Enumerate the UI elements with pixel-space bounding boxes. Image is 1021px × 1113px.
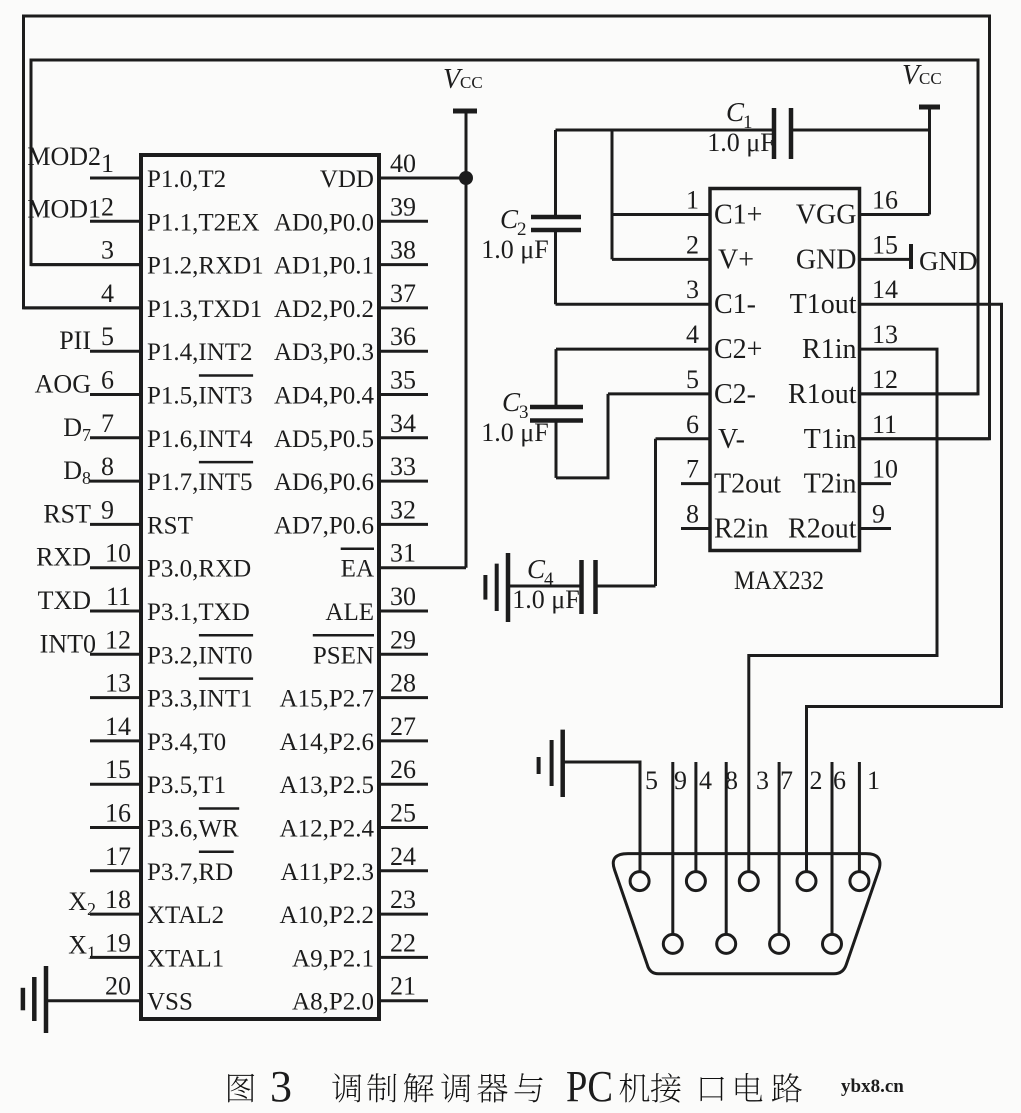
wire C4 right lead [596, 585, 656, 588]
wire C4 left lead to ground [508, 585, 582, 588]
svg-text:AD0,P0.0: AD0,P0.0 [274, 209, 374, 236]
svg-text:14: 14 [872, 275, 898, 304]
svg-text:3: 3 [686, 275, 699, 304]
DB9 hole pin 8 [717, 934, 736, 953]
U1 pin 2 wire (P1.1,T2EX) [90, 220, 141, 223]
svg-text:7: 7 [686, 455, 699, 484]
U1 pin 18 wire (XTAL2) [90, 913, 141, 916]
svg-text:2: 2 [686, 230, 699, 259]
svg-text:GND: GND [796, 244, 857, 275]
svg-text:2: 2 [101, 192, 114, 221]
svg-text:C1+: C1+ [714, 200, 762, 231]
svg-text:12: 12 [105, 625, 131, 654]
svg-text:12: 12 [872, 365, 898, 394]
DB9 hole pin 1 [850, 872, 869, 891]
svg-text:TXD: TXD [38, 586, 91, 615]
wire C3 to C2- pin5 [556, 394, 608, 478]
U1 pin 40 wire (VDD) [379, 177, 466, 180]
svg-text:P1.2,RXD1: P1.2,RXD1 [147, 253, 264, 280]
svg-text:5: 5 [101, 322, 114, 351]
overline INT5 [199, 461, 253, 464]
svg-text:P3.2,INT0: P3.2,INT0 [147, 642, 253, 669]
ground at DB9 pin 5 [537, 757, 541, 774]
svg-text:33: 33 [390, 452, 416, 481]
DB9 hole pin 4 [686, 872, 705, 891]
U2 pin 14 wire (T1out) to DB9 pin 2 [807, 304, 1002, 871]
svg-text:27: 27 [390, 712, 416, 741]
overline INT0 [199, 634, 253, 637]
svg-text:31: 31 [390, 539, 416, 568]
overline INT1 [199, 677, 253, 680]
U1 pin 37 wire (AD2,P0.2) [379, 306, 428, 309]
svg-text:A15,P2.7: A15,P2.7 [280, 686, 374, 713]
U1 pin 23 wire (A10,P2.2) [379, 913, 428, 916]
wire Vcc down to VDD and EA [465, 111, 468, 568]
svg-text:EA: EA [341, 556, 374, 583]
svg-text:40: 40 [390, 149, 416, 178]
svg-text:1.0 μF: 1.0 μF [481, 235, 548, 264]
svg-text:14: 14 [105, 712, 131, 741]
svg-text:C2+: C2+ [714, 334, 762, 365]
U1 pin 33 wire (AD6,P0.6) [379, 480, 428, 483]
U2 pin 4 wire (C2+) [556, 348, 710, 351]
U1 pin 10 wire (P3.0,RXD) [90, 566, 141, 569]
svg-text:MOD1: MOD1 [27, 194, 101, 223]
svg-text:A9,P2.1: A9,P2.1 [292, 945, 374, 972]
svg-text:1.0 μF: 1.0 μF [512, 585, 579, 614]
U1 pin 28 wire (A15,P2.7) [379, 696, 428, 699]
caption figure 3 text [228, 1073, 802, 1103]
svg-text:P1.7,INT5: P1.7,INT5 [147, 469, 253, 496]
svg-text:P3.0,RXD: P3.0,RXD [147, 556, 251, 583]
svg-text:T2out: T2out [714, 469, 781, 500]
svg-text:16: 16 [105, 799, 131, 828]
svg-text:1: 1 [867, 766, 880, 795]
svg-text:PC: PC [566, 1062, 613, 1111]
svg-text:AD6,P0.6: AD6,P0.6 [274, 469, 374, 496]
svg-text:A14,P2.6: A14,P2.6 [280, 729, 374, 756]
microcontroller U1 (80C32) body [141, 155, 379, 1019]
U2 pin 3 wire (C1-) [556, 303, 711, 306]
svg-text:P3.3,INT1: P3.3,INT1 [147, 686, 253, 713]
svg-text:A13,P2.5: A13,P2.5 [280, 772, 374, 799]
svg-text:35: 35 [390, 366, 416, 395]
svg-text:22: 22 [390, 928, 416, 957]
wire pin1/pin2 vertical to C1 node [611, 130, 614, 259]
U2 pin 5 wire (C2-) [608, 392, 710, 395]
wire C1 right segment to Vcc [791, 129, 930, 132]
U1 pin 27 wire (A14,P2.6) [379, 739, 428, 742]
overline EA [341, 547, 374, 550]
wire DB9 pin 6 stub [831, 762, 834, 934]
svg-text:INT0: INT0 [40, 629, 96, 658]
wire C1 left segment [556, 129, 775, 132]
svg-text:MOD2: MOD2 [27, 142, 101, 171]
DB9 hole pin 6 [823, 934, 842, 953]
DB9 hole pin 5 [630, 872, 649, 891]
svg-text:P3.5,T1: P3.5,T1 [147, 772, 226, 799]
U1 pin 8 wire (P1.7,INT5) [90, 480, 141, 483]
svg-text:P1.3,TXD1: P1.3,TXD1 [147, 296, 262, 323]
svg-text:P3.4,T0: P3.4,T0 [147, 729, 226, 756]
svg-text:R1in: R1in [802, 334, 856, 365]
svg-text:9: 9 [872, 500, 885, 529]
junction dot at VDD pin 40 [459, 171, 473, 185]
ground bar GND pin15 [909, 244, 913, 269]
svg-text:13: 13 [872, 320, 898, 349]
wire C2 top lead [554, 130, 557, 217]
U2 pin 8 stub wire (R2in) [681, 527, 710, 530]
svg-text:GND: GND [919, 246, 978, 276]
DB9 hole pin 2 [797, 872, 816, 891]
wire Vcc down to VGG [928, 107, 931, 215]
U1 pin 13 wire (P3.3,INT1) [90, 696, 141, 699]
svg-text:P3.7,RD: P3.7,RD [147, 859, 233, 886]
svg-text:AOG: AOG [35, 370, 91, 399]
wire C3 top lead [555, 349, 558, 407]
svg-text:11: 11 [106, 582, 131, 611]
svg-text:21: 21 [390, 972, 416, 1001]
svg-text:5: 5 [645, 766, 658, 795]
U1 pin 22 wire (A9,P2.1) [379, 956, 428, 959]
DB9 hole pin 9 [663, 934, 682, 953]
U1 pin 39 wire (AD0,P0.0) [379, 220, 428, 223]
U1 pin 38 wire (AD1,P0.1) [379, 263, 428, 266]
svg-text:32: 32 [390, 495, 416, 524]
U2 pin 11 wire (T1in) [860, 437, 990, 440]
U1 pin 14 wire (P3.4,T0) [90, 739, 141, 742]
svg-text:26: 26 [390, 755, 416, 784]
U2 pin 6 wire (V-) [656, 437, 711, 440]
svg-text:AD7,P0.6: AD7,P0.6 [274, 512, 374, 539]
U1 pin 15 wire (P3.5,T1) [90, 783, 141, 786]
svg-text:T2in: T2in [804, 469, 857, 500]
svg-text:38: 38 [390, 236, 416, 265]
capacitor C2 plates [531, 215, 581, 220]
svg-text:RST: RST [147, 512, 193, 539]
svg-text:R1out: R1out [788, 379, 857, 410]
U1 pin 4 wire (P1.3,TXD1) [24, 306, 142, 309]
svg-text:R2out: R2out [788, 514, 857, 545]
svg-text:16: 16 [872, 186, 898, 215]
wire DB9 pin 1 stub [858, 762, 861, 872]
U1 pin 1 wire (P1.0,T2) [90, 177, 141, 180]
svg-text:4: 4 [699, 766, 712, 795]
wire DB9 pin 5 to ground [563, 762, 640, 872]
wire DB9 pin 9 stub [671, 762, 674, 934]
svg-text:7: 7 [101, 409, 114, 438]
svg-text:V-: V- [718, 424, 745, 455]
svg-text:P3.6,WR: P3.6,WR [147, 816, 239, 843]
U1 pin 17 wire (P3.7,RD) [90, 869, 141, 872]
svg-text:A11,P2.3: A11,P2.3 [280, 859, 374, 886]
svg-text:1.0 μF: 1.0 μF [481, 418, 548, 447]
U1 pin 35 wire (AD4,P0.4) [379, 393, 428, 396]
svg-text:A10,P2.2: A10,P2.2 [280, 902, 374, 929]
overline INT3 [199, 374, 253, 377]
svg-text:25: 25 [390, 799, 416, 828]
U1 pin 3 wire (P1.2,RXD1) [31, 263, 141, 266]
U1 pin 7 wire (P1.6,INT4) [90, 436, 141, 439]
svg-text:8: 8 [686, 500, 699, 529]
DB9 connector body [613, 854, 880, 974]
svg-text:30: 30 [390, 582, 416, 611]
svg-text:1.0 μF: 1.0 μF [707, 128, 774, 157]
svg-text:10: 10 [105, 539, 131, 568]
svg-text:RST: RST [43, 499, 91, 528]
U2 pin 13 wire (R1in) to DB9 pin 3 [749, 349, 937, 871]
U1 pin 6 wire (P1.5,INT3) [90, 393, 141, 396]
U2 pin 10 stub wire (T2in) [860, 482, 891, 485]
svg-text:5: 5 [686, 365, 699, 394]
U1 pin 36 wire (AD3,P0.3) [379, 350, 428, 353]
svg-text:10: 10 [872, 455, 898, 484]
svg-text:8: 8 [725, 766, 738, 795]
wire C2 bottom lead [554, 230, 557, 304]
svg-text:T1in: T1in [804, 424, 857, 455]
U1 pin 26 wire (A13,P2.5) [379, 783, 428, 786]
svg-text:RXD: RXD [36, 543, 91, 572]
svg-text:AD5,P0.5: AD5,P0.5 [274, 426, 374, 453]
svg-text:MAX232: MAX232 [734, 566, 824, 595]
capacitor C1 plates [772, 108, 777, 159]
svg-text:PII: PII [59, 326, 91, 355]
svg-text:9: 9 [101, 495, 114, 524]
wire net P1.2,RXD1 to MAX232 R1out (pin3 to pin12) [31, 60, 978, 394]
svg-text:V+: V+ [718, 244, 754, 275]
U1 pin 21 wire (A8,P2.0) [379, 999, 428, 1002]
svg-text:AD4,P0.4: AD4,P0.4 [274, 383, 375, 410]
svg-text:C2-: C2- [714, 379, 756, 410]
svg-text:CC: CC [460, 73, 483, 92]
svg-text:1: 1 [686, 186, 699, 215]
wire DB9 pin 7 stub [778, 762, 781, 934]
svg-text:39: 39 [390, 192, 416, 221]
svg-text:13: 13 [105, 669, 131, 698]
svg-text:3: 3 [101, 236, 114, 265]
svg-text:AD3,P0.3: AD3,P0.3 [274, 339, 374, 366]
U1 pin 25 wire (A12,P2.4) [379, 826, 428, 829]
svg-text:19: 19 [105, 928, 131, 957]
svg-text:ALE: ALE [325, 599, 374, 626]
svg-text:A8,P2.0: A8,P2.0 [292, 989, 374, 1016]
U2 pin 7 stub wire (T2out) [681, 482, 710, 485]
svg-text:6: 6 [101, 366, 114, 395]
svg-text:P1.5,INT3: P1.5,INT3 [147, 383, 253, 410]
svg-text:7: 7 [780, 766, 793, 795]
capacitor C3 plates [530, 405, 583, 410]
U1 pin 9 wire (RST) [90, 523, 141, 526]
svg-text:C1-: C1- [714, 289, 756, 320]
svg-text:15: 15 [872, 230, 898, 259]
svg-text:AD2,P0.2: AD2,P0.2 [274, 296, 374, 323]
MAX232 U2 body [710, 189, 860, 551]
U1 pin 24 wire (A11,P2.3) [379, 869, 428, 872]
U1 pin 12 wire (P3.2,INT0) [90, 653, 141, 656]
svg-text:3: 3 [756, 766, 769, 795]
wire V- down to C4 [654, 439, 657, 586]
svg-text:R2in: R2in [714, 514, 768, 545]
svg-text:CC: CC [919, 69, 942, 88]
svg-text:VGG: VGG [796, 200, 857, 231]
svg-text:P1.0,T2: P1.0,T2 [147, 166, 226, 193]
capacitor C4 plates [579, 560, 584, 614]
DB9 hole pin 3 [739, 872, 758, 891]
svg-text:4: 4 [101, 279, 114, 308]
svg-text:P1.1,T2EX: P1.1,T2EX [147, 209, 260, 236]
overline WR [199, 807, 239, 810]
U1 pin 34 wire (AD5,P0.5) [379, 436, 428, 439]
svg-text:18: 18 [105, 885, 131, 914]
svg-text:4: 4 [686, 320, 699, 349]
svg-text:2: 2 [810, 766, 823, 795]
svg-text:ybx8.cn: ybx8.cn [841, 1076, 904, 1097]
svg-text:6: 6 [833, 766, 846, 795]
U1 pin 30 wire (ALE) [379, 610, 428, 613]
overline PSEN [313, 634, 374, 637]
U1 pin 29 wire (PSEN) [379, 653, 428, 656]
wire DB9 pin 4 stub [694, 762, 697, 872]
svg-text:P1.4,INT2: P1.4,INT2 [147, 339, 253, 366]
svg-text:8: 8 [101, 452, 114, 481]
svg-text:VSS: VSS [147, 989, 193, 1016]
svg-text:1: 1 [101, 149, 114, 178]
U1 pin 31 wire (EA) [379, 566, 466, 569]
svg-text:XTAL2: XTAL2 [147, 902, 224, 929]
svg-text:37: 37 [390, 279, 416, 308]
U2 pin 1 wire (C1+) [612, 213, 710, 216]
U2 pin 12 wire (R1out) [860, 392, 978, 395]
U2 pin 2 wire (V+) [612, 258, 710, 261]
svg-text:XTAL1: XTAL1 [147, 945, 224, 972]
svg-text:VDD: VDD [320, 166, 374, 193]
svg-text:23: 23 [390, 885, 416, 914]
svg-text:PSEN: PSEN [313, 642, 374, 669]
svg-text:36: 36 [390, 322, 416, 351]
wire DB9 pin 8 stub [725, 762, 728, 934]
svg-text:34: 34 [390, 409, 416, 438]
svg-text:P3.1,TXD: P3.1,TXD [147, 599, 250, 626]
U2 pin 16 wire (VGG) to Vcc [860, 213, 930, 216]
U1 pin 5 wire (P1.4,INT2) [90, 350, 141, 353]
svg-text:T1out: T1out [790, 289, 857, 320]
svg-text:AD1,P0.1: AD1,P0.1 [274, 253, 374, 280]
svg-text:15: 15 [105, 755, 131, 784]
U1 pin 19 wire (XTAL1) [90, 956, 141, 959]
wire net P1.3,TXD1 to MAX232 T1in (pin4 to pin11) [24, 16, 990, 439]
ground at C4 [483, 575, 487, 600]
U2 pin 9 stub wire (R2out) [860, 527, 891, 530]
svg-text:28: 28 [390, 669, 416, 698]
svg-text:6: 6 [686, 410, 699, 439]
svg-text:9: 9 [674, 766, 687, 795]
svg-text:3: 3 [270, 1062, 292, 1111]
ground at U1 VSS pin 20 [21, 988, 26, 1011]
overline RD [199, 851, 234, 854]
DB9 hole pin 7 [770, 934, 789, 953]
svg-text:29: 29 [390, 625, 416, 654]
U1 pin 20 wire (VSS) [46, 999, 141, 1002]
U1 pin 32 wire (AD7,P0.6) [379, 523, 428, 526]
U1 pin 11 wire (P3.1,TXD) [90, 610, 141, 613]
U2 pin 15 wire (GND) [860, 258, 911, 261]
svg-text:24: 24 [390, 842, 416, 871]
U1 pin 16 wire (P3.6,WR) [90, 826, 141, 829]
svg-text:17: 17 [105, 842, 131, 871]
svg-text:20: 20 [105, 972, 131, 1001]
svg-text:A12,P2.4: A12,P2.4 [280, 816, 375, 843]
svg-text:11: 11 [872, 410, 897, 439]
wire C3 bottom lead [555, 421, 558, 478]
svg-text:P1.6,INT4: P1.6,INT4 [147, 426, 253, 453]
